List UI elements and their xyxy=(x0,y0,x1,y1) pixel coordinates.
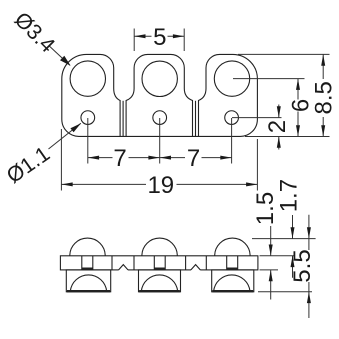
ext line bar top xyxy=(260,255,295,257)
dim line 8.5 xyxy=(322,54,324,136)
extension lines xyxy=(61,29,329,292)
caret notch 1 xyxy=(119,265,128,272)
arrow 5.5 top xyxy=(307,227,311,238)
arrow 5 right xyxy=(173,34,184,38)
dim line 5.5 xyxy=(308,215,310,318)
ext line top edge xyxy=(238,53,330,55)
svg-text:Ø3.4: Ø3.4 xyxy=(10,7,60,57)
neck box 2 xyxy=(154,256,165,270)
arrow 1.7 top xyxy=(291,227,295,238)
small hole 2 xyxy=(153,111,167,125)
arrow leader 3.4 xyxy=(60,56,71,66)
svg-text:6: 6 xyxy=(288,99,315,112)
leader 1.1 xyxy=(49,123,81,149)
leg 3 xyxy=(212,270,254,292)
seam line slit 1 xyxy=(122,101,124,137)
seam line slit 2 xyxy=(195,101,197,137)
lens hole big circle 3 xyxy=(214,61,249,96)
caret notch 2 xyxy=(191,265,200,272)
leg arc 1 xyxy=(70,275,106,291)
svg-text:Ø1.1: Ø1.1 xyxy=(2,142,54,188)
arrow leader 1.1 xyxy=(70,123,81,132)
leg arc 2 xyxy=(141,275,177,291)
arrow 6 bottom xyxy=(296,125,300,136)
dim line 1.5 xyxy=(270,226,272,300)
arrow 19 right xyxy=(246,182,257,186)
leader 3.4 xyxy=(49,46,70,66)
leg 2 xyxy=(139,270,181,292)
svg-text:19: 19 xyxy=(147,172,174,199)
ext line hole2 xyxy=(159,118,161,164)
arrow 2 bottom xyxy=(277,137,281,148)
leg 1 xyxy=(66,270,110,292)
ext line big circle center xyxy=(233,78,305,80)
dim line 7a xyxy=(88,157,160,159)
dim line 2 xyxy=(278,105,280,150)
ext line 19 left xyxy=(60,129,62,191)
dome 1 xyxy=(70,238,105,256)
lens hole big circle 2 xyxy=(142,61,177,96)
dim line 6 xyxy=(297,79,299,137)
dimension lines xyxy=(49,36,324,318)
lens hole big circle 1 xyxy=(70,61,105,96)
arrow 7b right xyxy=(220,156,231,160)
bar divider lines xyxy=(112,256,206,270)
dim line 5 xyxy=(134,35,184,37)
ext line dome top xyxy=(252,238,316,240)
arrow 5 left xyxy=(134,34,145,38)
ext line 19 right xyxy=(256,139,258,191)
dome 3 xyxy=(215,238,250,256)
svg-text:8.5: 8.5 xyxy=(311,81,338,114)
arrow 8.5 top xyxy=(321,54,325,65)
side bar xyxy=(60,256,258,270)
arrow 5.5 bottom xyxy=(307,292,311,303)
arrow 19 left xyxy=(61,182,72,186)
ext line 5 right xyxy=(183,29,185,52)
neck box 3 xyxy=(227,256,238,270)
dome 2 xyxy=(142,238,177,256)
svg-text:5: 5 xyxy=(153,24,166,51)
thick neck bottoms xyxy=(82,267,238,270)
ext line hole1 xyxy=(87,118,89,164)
arrow 7b left xyxy=(160,156,171,160)
dim line 19 xyxy=(61,183,257,185)
ext line leg bottom xyxy=(258,291,312,293)
small hole 3 xyxy=(225,111,239,125)
ext line bar bottom xyxy=(260,269,279,271)
arrow 7a right xyxy=(148,156,159,160)
svg-text:5.5: 5.5 xyxy=(289,249,316,282)
ext line bottom edge xyxy=(245,136,330,138)
arrow 6 top xyxy=(296,79,300,90)
ext line hole3 xyxy=(231,118,233,164)
arrow 8.5 bottom xyxy=(321,125,325,136)
svg-text:2: 2 xyxy=(264,120,291,133)
arrow 1.5 top xyxy=(269,245,273,256)
svg-text:7: 7 xyxy=(113,145,126,172)
arrow 1.7 bottom xyxy=(291,256,295,267)
ext line small circle center xyxy=(232,117,282,119)
leg arc 3 xyxy=(214,275,250,291)
arrows xyxy=(60,34,325,303)
small hole 1 xyxy=(81,111,95,125)
dim line 7b xyxy=(160,157,232,159)
arrow 2 top xyxy=(277,106,281,117)
dim line 1.7 xyxy=(292,215,294,278)
side view xyxy=(60,238,258,292)
plan view outline xyxy=(62,54,258,136)
ext line 5 left xyxy=(133,29,135,52)
arrow 7a left xyxy=(88,156,99,160)
thick leg bottoms xyxy=(67,290,253,292)
svg-text:7: 7 xyxy=(187,145,200,172)
arrow 1.5 bottom xyxy=(269,270,273,281)
svg-text:1.7: 1.7 xyxy=(275,179,302,212)
neck box 1 xyxy=(82,256,93,270)
